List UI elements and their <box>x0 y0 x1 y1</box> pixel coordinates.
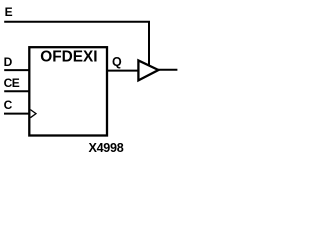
wire E net: horizontal run then down to buffer enable <box>4 22 149 66</box>
buffer U2 tristate triangle <box>138 61 158 81</box>
svg-text:E: E <box>5 5 13 19</box>
wire CE input <box>4 90 29 92</box>
svg-text:D: D <box>4 55 13 69</box>
svg-text:CE: CE <box>4 76 20 90</box>
svg-text:X4998: X4998 <box>89 141 124 155</box>
wire D input <box>4 69 29 71</box>
wire Q output <box>107 70 138 72</box>
svg-text:Q: Q <box>112 55 122 69</box>
wire output from buffer <box>158 69 177 71</box>
wire C clock input <box>4 113 29 115</box>
svg-text:C: C <box>4 98 13 112</box>
clock caret on pin C <box>30 110 36 118</box>
svg-text:OFDEXI: OFDEXI <box>40 48 97 65</box>
flip-flop U1 OFDEXI body <box>29 47 107 135</box>
